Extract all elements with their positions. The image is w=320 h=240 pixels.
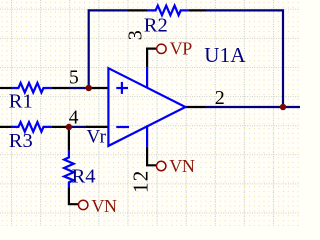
svg-text:12: 12 (129, 170, 153, 193)
svg-text:3: 3 (125, 30, 147, 40)
svg-text:VP: VP (170, 39, 193, 59)
svg-text:5: 5 (69, 67, 79, 88)
svg-text:U1A: U1A (204, 43, 246, 67)
svg-text:2: 2 (215, 87, 225, 109)
svg-text:R4: R4 (72, 165, 96, 187)
svg-text:R2: R2 (144, 15, 168, 37)
svg-text:Vr: Vr (87, 127, 107, 148)
svg-text:4: 4 (69, 107, 79, 128)
svg-text:R3: R3 (9, 130, 33, 152)
svg-text:R1: R1 (9, 91, 33, 113)
svg-text:VN: VN (169, 156, 195, 176)
svg-text:VN: VN (91, 196, 117, 216)
